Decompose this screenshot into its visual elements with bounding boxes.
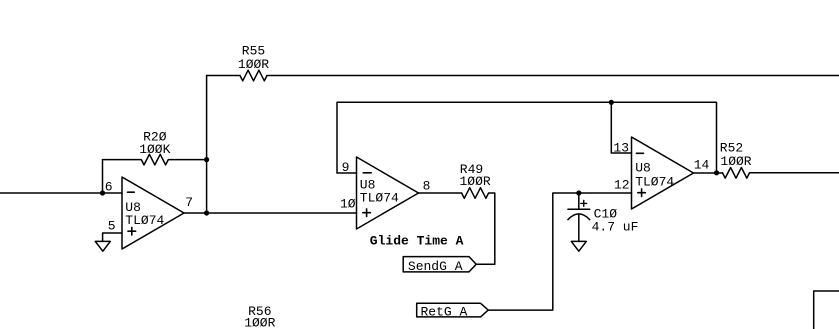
svg-text:7: 7 — [185, 195, 193, 210]
svg-text:SendG A: SendG A — [408, 259, 463, 274]
svg-text:1ØØR: 1ØØR — [459, 174, 490, 189]
wire op-amp2 output to R49 — [419, 192, 462, 194]
svg-text:RetG A: RetG A — [421, 305, 468, 320]
svg-text:5: 5 — [108, 218, 116, 233]
svg-text:4.7 uF: 4.7 uF — [592, 220, 639, 235]
wire pin 13 stub — [611, 102, 631, 153]
svg-text:TLØ74: TLØ74 — [125, 213, 164, 228]
op-amp U8 middle triangle — [357, 157, 419, 229]
svg-text:14: 14 — [694, 157, 710, 172]
svg-text:Glide Time A: Glide Time A — [370, 233, 464, 248]
op-amp U8 right minus — [636, 152, 643, 154]
svg-text:1ØØR: 1ØØR — [238, 57, 269, 72]
svg-text:1ØØR: 1ØØR — [720, 154, 751, 169]
wire pin 9 to top loop — [337, 102, 717, 173]
ground at pin 5 — [95, 241, 110, 251]
svg-text:9: 9 — [342, 160, 350, 175]
wire input from left edge to op-amp U8A pin 6 — [0, 192, 122, 194]
node C10 tap — [576, 190, 581, 195]
op-amp U8 left minus — [128, 191, 135, 193]
svg-text:TLØ74: TLØ74 — [635, 174, 674, 189]
node input junction — [100, 190, 105, 195]
label tag RetG A — [417, 303, 489, 317]
node R20 right junction — [204, 157, 209, 162]
svg-text:1Ø: 1Ø — [340, 197, 356, 212]
op-amp U8 middle plus — [363, 209, 371, 217]
wire op-amp3 output — [694, 172, 723, 174]
wire output vertical to R55 row — [206, 76, 208, 214]
resistor R55 — [207, 70, 839, 81]
node pin 13 tap — [609, 100, 614, 105]
wire feedback left vertical — [102, 160, 104, 193]
svg-text:8: 8 — [423, 178, 431, 193]
op-amp U8 left plus — [128, 227, 136, 235]
op-amp U8 left triangle — [122, 177, 184, 249]
svg-text:1ØØR: 1ØØR — [244, 316, 275, 329]
op-amp U8 right plus — [638, 189, 646, 197]
svg-text:TLØ74: TLØ74 — [360, 191, 399, 206]
op-amp U8 right triangle — [632, 137, 694, 209]
label tag SendG A — [403, 257, 476, 272]
ground at C10 — [571, 241, 586, 251]
wire RetG A to pin 12 row — [488, 193, 631, 310]
box corner bottom right — [814, 291, 839, 329]
svg-text:1ØØK: 1ØØK — [139, 142, 170, 157]
svg-text:13: 13 — [613, 141, 629, 156]
svg-text:12: 12 — [614, 178, 630, 193]
capacitor C10 plus sign — [581, 201, 587, 207]
resistor R52 — [723, 168, 839, 179]
pin 5 stub wire — [103, 233, 122, 241]
node output junction — [204, 210, 209, 215]
resistor R20 — [103, 154, 207, 165]
capacitor C10 — [568, 193, 590, 241]
wire op-amp1 output to op-amp2 pin 10 — [184, 212, 357, 214]
node feedback output junction — [714, 170, 719, 175]
svg-text:6: 6 — [105, 179, 113, 194]
op-amp U8 middle minus — [363, 172, 371, 174]
resistor R49 — [462, 188, 495, 265]
